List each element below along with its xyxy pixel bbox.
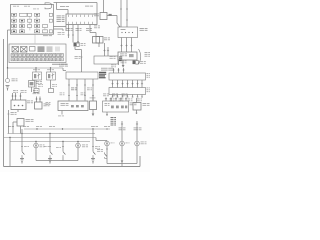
PDC top label a — [13, 5, 19, 8]
label bracket — [145, 52, 150, 57]
wire switch2 gnd — [49, 156, 51, 158]
wire A16 down — [81, 50, 83, 73]
splice — [105, 98, 107, 100]
relay box G — [96, 37, 103, 44]
splice — [107, 49, 109, 51]
wire switch1 drop — [21, 129, 23, 151]
label lamp left — [40, 145, 45, 148]
wire J top pin 123.5 — [123, 68, 125, 73]
junction — [62, 128, 63, 129]
junction — [92, 128, 93, 129]
wire lamp2 feed — [121, 121, 123, 141]
relay G label — [104, 38, 110, 41]
wire below box E — [92, 110, 94, 114]
splice — [116, 83, 118, 85]
ground switch4 — [91, 159, 95, 164]
wire switch3 down — [62, 156, 64, 160]
label K pin d — [137, 99, 142, 102]
label A0 14BK — [85, 5, 93, 8]
connector tick — [106, 148, 108, 150]
bus label 4 — [49, 125, 55, 128]
splice — [126, 83, 128, 85]
PDC fuse centers — [13, 14, 45, 32]
connector tick — [136, 112, 138, 114]
wire boxC down — [20, 126, 22, 134]
bus label 2 — [23, 125, 29, 128]
bus label 1 — [8, 125, 14, 128]
label below box D — [58, 115, 64, 118]
splice — [120, 44, 122, 46]
wire labels row — [67, 28, 73, 31]
label D pin3 — [81, 93, 86, 96]
wire switch3 drop — [62, 142, 64, 151]
wire boxB pin2 — [39, 97, 41, 103]
splice — [130, 44, 132, 46]
switch lamp1 — [105, 153, 107, 159]
relay cavities with X — [12, 47, 35, 53]
inner mark box H — [129, 54, 134, 57]
power distribution center PDC outline — [11, 5, 54, 35]
label A0 14BK/WH — [60, 5, 69, 8]
label pinB — [21, 90, 27, 93]
wire A0 14BK/WH — [57, 9, 69, 11]
bus label 5 — [91, 125, 98, 128]
fuse row inner marks — [12, 54, 63, 59]
bus B+ horn — [8, 67, 64, 69]
wire ignition pin 131.5 — [131, 38, 133, 53]
wire labels row3 — [86, 28, 92, 31]
box B — [35, 102, 43, 109]
label A0 left of defogger — [59, 64, 68, 67]
connector tick — [92, 84, 94, 86]
PDC top label b — [24, 5, 30, 8]
label mid — [94, 26, 100, 29]
wire JK pin 127.5 — [127, 80, 129, 88]
wire F pin 111 — [110, 98, 112, 102]
switch 4 — [93, 151, 95, 157]
wire stub under strip — [65, 25, 67, 31]
splice — [125, 98, 127, 100]
wire K pin down 132.5 — [132, 95, 134, 98]
junction — [35, 67, 36, 68]
wire A0 branch down — [56, 3, 58, 10]
label K pin b — [119, 99, 124, 102]
wire J top pin 118.5 — [118, 68, 120, 73]
wire left feed down — [8, 110, 10, 134]
connector tick — [62, 146, 64, 148]
wire T symbol — [118, 61, 120, 66]
connector tick — [137, 96, 139, 98]
label relay2 pins — [47, 68, 54, 71]
connector box relay2 — [49, 89, 54, 93]
wire JK pin 142 — [141, 80, 143, 88]
splice — [125, 44, 127, 46]
PDC tab — [45, 3, 52, 9]
junction block J — [109, 73, 146, 80]
bus 4 — [10, 141, 90, 143]
wire PDC left exit — [8, 29, 11, 31]
label relay1 pins — [33, 68, 40, 71]
wire pin C — [77, 25, 79, 45]
dome lamp — [76, 143, 81, 148]
wire box I right — [107, 15, 117, 17]
junction — [7, 67, 8, 68]
splice — [39, 98, 41, 100]
label lamp1 switch — [97, 149, 103, 152]
label below relay2 — [52, 84, 57, 87]
wire down to junction connector — [96, 3, 98, 15]
wire boxA pin3 — [20, 93, 22, 100]
splice — [35, 98, 37, 100]
label box E top — [90, 97, 96, 100]
wire K pin down 117.5 — [117, 95, 119, 98]
wire to relay box — [95, 33, 97, 37]
wire relay1 down — [35, 80, 37, 88]
box H inner text — [120, 54, 127, 57]
wire lamp2 down — [121, 146, 123, 164]
ground switch1 — [20, 159, 24, 164]
wire from top to fusible link box — [103, 0, 105, 13]
junction — [77, 141, 78, 142]
box D inner text — [61, 103, 69, 106]
connector tick — [76, 84, 78, 86]
splice — [121, 83, 123, 85]
wire down — [116, 16, 118, 24]
wire stub2 — [62, 29, 64, 31]
wire pin A — [68, 25, 70, 39]
lamp underhood — [135, 141, 140, 146]
wire right column 2 — [107, 47, 109, 56]
wire F pin 116 — [115, 98, 117, 102]
splice — [136, 123, 138, 125]
label J right — [147, 73, 150, 78]
wire lamp3 down — [136, 146, 138, 164]
label left of box H — [110, 56, 116, 59]
label K right — [147, 88, 150, 93]
label switch1 — [24, 145, 29, 148]
bus 1 — [24, 128, 110, 130]
wire relay1 drop — [35, 68, 37, 72]
connector tick — [112, 96, 114, 98]
box A internals — [14, 105, 24, 107]
label pin4 wire — [87, 88, 92, 91]
connector tick — [126, 8, 128, 10]
label D pin1 — [60, 93, 65, 96]
label box C — [26, 119, 34, 122]
box E — [90, 101, 97, 110]
wire defogger pin2 — [76, 79, 78, 101]
wire lamp left drop — [35, 142, 37, 144]
splice — [11, 95, 13, 97]
wire K pin down 137.5 — [137, 95, 139, 98]
wire down to horn bus — [7, 30, 9, 68]
wire labels row2 — [76, 28, 82, 31]
label connector — [36, 81, 42, 84]
label F pin a — [103, 94, 109, 97]
splice — [112, 69, 114, 71]
wire F pin 106 — [105, 98, 107, 102]
label lamp3 — [141, 142, 147, 145]
label pinC — [33, 90, 38, 93]
connector pair box C101 — [74, 43, 80, 47]
connector tick — [122, 96, 124, 98]
wire ignition pin 126.5 — [126, 38, 128, 53]
switch lamp1 link — [105, 157, 108, 159]
heater AC control box F — [103, 101, 129, 112]
splice — [103, 49, 105, 51]
wire JK pin 132.5 — [132, 80, 134, 88]
fusible link box I — [100, 13, 107, 20]
connector tick — [92, 146, 94, 148]
wire below G — [98, 43, 100, 47]
stub lamp1 — [106, 140, 108, 143]
arrow below box E — [92, 114, 95, 117]
wire horn drop — [7, 68, 9, 79]
wire defogger pin4 — [92, 79, 94, 101]
wire below box D — [61, 111, 63, 115]
connector tick — [68, 34, 70, 36]
wire switch4 gnd — [92, 156, 94, 158]
wire diagonal into ignition switch — [117, 23, 120, 27]
ignition switch contacts — [121, 29, 134, 33]
switch 1 — [22, 151, 24, 157]
splice — [120, 98, 122, 100]
large connector bracket — [139, 49, 141, 64]
box G2 blower — [133, 103, 141, 111]
lamp cargo — [120, 141, 125, 146]
fuse block — [9, 44, 66, 63]
wire lamp1 down — [106, 146, 108, 150]
wire PDC right exit 2 — [54, 28, 64, 30]
connector tick — [77, 41, 79, 43]
connector box relay1 — [34, 89, 39, 93]
label C101 — [81, 43, 86, 46]
wire pdc to fuseblock — [34, 35, 36, 45]
wire lamp left down — [35, 148, 37, 161]
splice — [141, 83, 143, 85]
connector tick — [127, 96, 129, 98]
wire switch4 drop — [92, 129, 94, 151]
label F pin b — [112, 94, 118, 97]
splice — [131, 83, 133, 85]
box F inner label — [105, 103, 110, 106]
label above box B — [33, 92, 40, 95]
page border left — [3, 39, 5, 167]
ignition switch box — [118, 27, 138, 38]
wire dome drop — [77, 142, 79, 144]
connector tick — [84, 84, 86, 86]
label G2 — [143, 103, 150, 106]
connector tick — [132, 96, 134, 98]
wire JK pin 112.5 — [112, 80, 114, 88]
wire pin B — [72, 25, 74, 43]
label T symbol — [121, 61, 127, 64]
wire defogger pin3 — [84, 79, 86, 101]
label switch2 — [44, 145, 49, 148]
connector tick — [8, 113, 10, 115]
bus label 3 — [36, 125, 42, 128]
wire below H — [122, 60, 124, 65]
hatched relay cavities — [38, 46, 61, 52]
lamp glovebox — [105, 141, 110, 146]
PDC top label c — [33, 8, 39, 11]
label defogger relay — [99, 72, 106, 78]
label lamp3 wire — [134, 128, 142, 131]
wire jog — [90, 32, 96, 34]
junction — [49, 133, 50, 134]
junction — [36, 128, 37, 129]
stacked labels below F — [111, 117, 117, 125]
relay 2 — [47, 72, 56, 80]
wire left drop to border — [9, 138, 11, 167]
splice — [136, 83, 138, 85]
label under strip left — [58, 32, 65, 35]
wire lamp bottom link — [36, 160, 78, 162]
wire lamp3 feed — [136, 121, 138, 141]
label F pin c — [122, 94, 128, 97]
wire into connector — [67, 10, 69, 15]
junction — [50, 67, 51, 68]
wire below pair — [74, 47, 76, 50]
label below relay1 — [38, 84, 43, 87]
wire K pin down 127.5 — [127, 95, 129, 98]
label below PDC — [43, 34, 52, 37]
bus 3 — [4, 137, 96, 139]
wire ignition feed 2 from top — [120, 0, 122, 27]
bus3 corner — [95, 138, 97, 141]
connector tick — [92, 95, 94, 97]
wire F pin 121 — [120, 98, 122, 102]
ground switch2 — [48, 159, 52, 164]
wire J top pin 113.5 — [113, 68, 115, 73]
label power distribution center — [57, 16, 65, 23]
box C flasher — [17, 119, 24, 127]
wire G2 top — [136, 98, 138, 103]
wire jog2 — [75, 49, 82, 51]
splice — [19, 95, 21, 97]
label switch3 — [56, 146, 61, 149]
junction block connector C1 — [66, 14, 97, 25]
junction — [35, 141, 36, 142]
inline connector dark mark — [109, 14, 112, 16]
wire boxA pin2 — [15, 93, 17, 100]
wire K pin down 142 — [141, 95, 143, 98]
wire below connector — [31, 87, 33, 92]
connector box K — [109, 88, 146, 95]
bus 2 — [8, 133, 96, 135]
connector tick — [126, 19, 128, 21]
wire boxC left — [13, 121, 17, 123]
connector tick — [120, 8, 122, 10]
connector tick — [117, 96, 119, 98]
wire bottom link rail — [107, 163, 137, 165]
label lamp1 — [111, 142, 115, 145]
splice — [117, 69, 119, 71]
wire below F — [106, 112, 108, 116]
wire relay2 drop — [50, 68, 52, 72]
connector tick — [68, 95, 70, 97]
wire JK pin 117.5 — [117, 80, 119, 88]
wire A0 feed top — [54, 2, 98, 4]
label J pins top — [111, 65, 116, 68]
circuit breaker box L — [94, 56, 118, 64]
fuse rows — [11, 54, 63, 61]
label circuit — [101, 68, 113, 71]
wire K pin down 122.5 — [122, 95, 124, 98]
splice — [111, 83, 113, 85]
ground triangle mark — [121, 161, 124, 163]
wire relay2 down — [50, 80, 52, 88]
wire rail to border — [121, 164, 123, 167]
junction — [62, 141, 63, 142]
wire switch2 drop — [49, 134, 51, 151]
label dome lamp — [82, 145, 88, 148]
label lamp2 — [126, 142, 130, 145]
label switch4 — [95, 146, 100, 149]
label A16 12RD — [71, 88, 77, 91]
label ignition switch — [140, 28, 148, 31]
connector tick — [68, 84, 70, 86]
page border right stub — [139, 156, 141, 167]
label K pin a — [110, 99, 115, 102]
label box B — [44, 104, 50, 107]
connector tick — [81, 56, 83, 58]
instrument cluster box D — [58, 101, 88, 111]
label A16 — [75, 56, 81, 59]
label box A — [27, 101, 33, 104]
connector tick — [76, 95, 78, 97]
ground horn — [6, 86, 10, 91]
label left of box D — [46, 102, 51, 105]
label right of box L — [119, 57, 122, 62]
splice — [14, 95, 16, 97]
connector box on vertical — [29, 81, 35, 88]
bus corner down — [62, 68, 64, 71]
wire box A bottom pin — [17, 110, 19, 113]
tick pin B — [72, 34, 74, 36]
lamp courtesy left — [34, 143, 39, 148]
wire JK pin 137.5 — [137, 80, 139, 88]
wire boxC left down — [12, 122, 14, 134]
connector pair box right — [133, 61, 139, 65]
bus3 to lamp1 — [96, 140, 107, 142]
page border bottom — [4, 166, 141, 168]
wire dome down — [77, 148, 79, 161]
connector tick — [21, 146, 23, 148]
wiper motor box A — [11, 100, 26, 110]
label horn — [12, 79, 18, 82]
switch 3 — [63, 151, 65, 157]
horn relay — [33, 72, 42, 80]
wire right column 1 — [104, 43, 106, 56]
junction — [9, 137, 10, 138]
junction — [21, 133, 22, 134]
junction — [106, 128, 107, 129]
connector box H — [118, 52, 137, 60]
wire F pin 126 — [125, 98, 127, 102]
label A2 14RD — [11, 112, 17, 115]
splice — [122, 69, 124, 71]
wire defogger pin1 — [68, 79, 70, 101]
wire K pin down 112.5 — [112, 95, 114, 98]
connector tick — [141, 96, 143, 98]
splice — [121, 123, 123, 125]
label K pin c — [128, 99, 133, 102]
connector tick — [49, 146, 51, 148]
wire PDC right exit 1 — [54, 26, 67, 28]
bus label 6 — [104, 125, 110, 128]
wire boxA pin1 — [12, 93, 14, 100]
